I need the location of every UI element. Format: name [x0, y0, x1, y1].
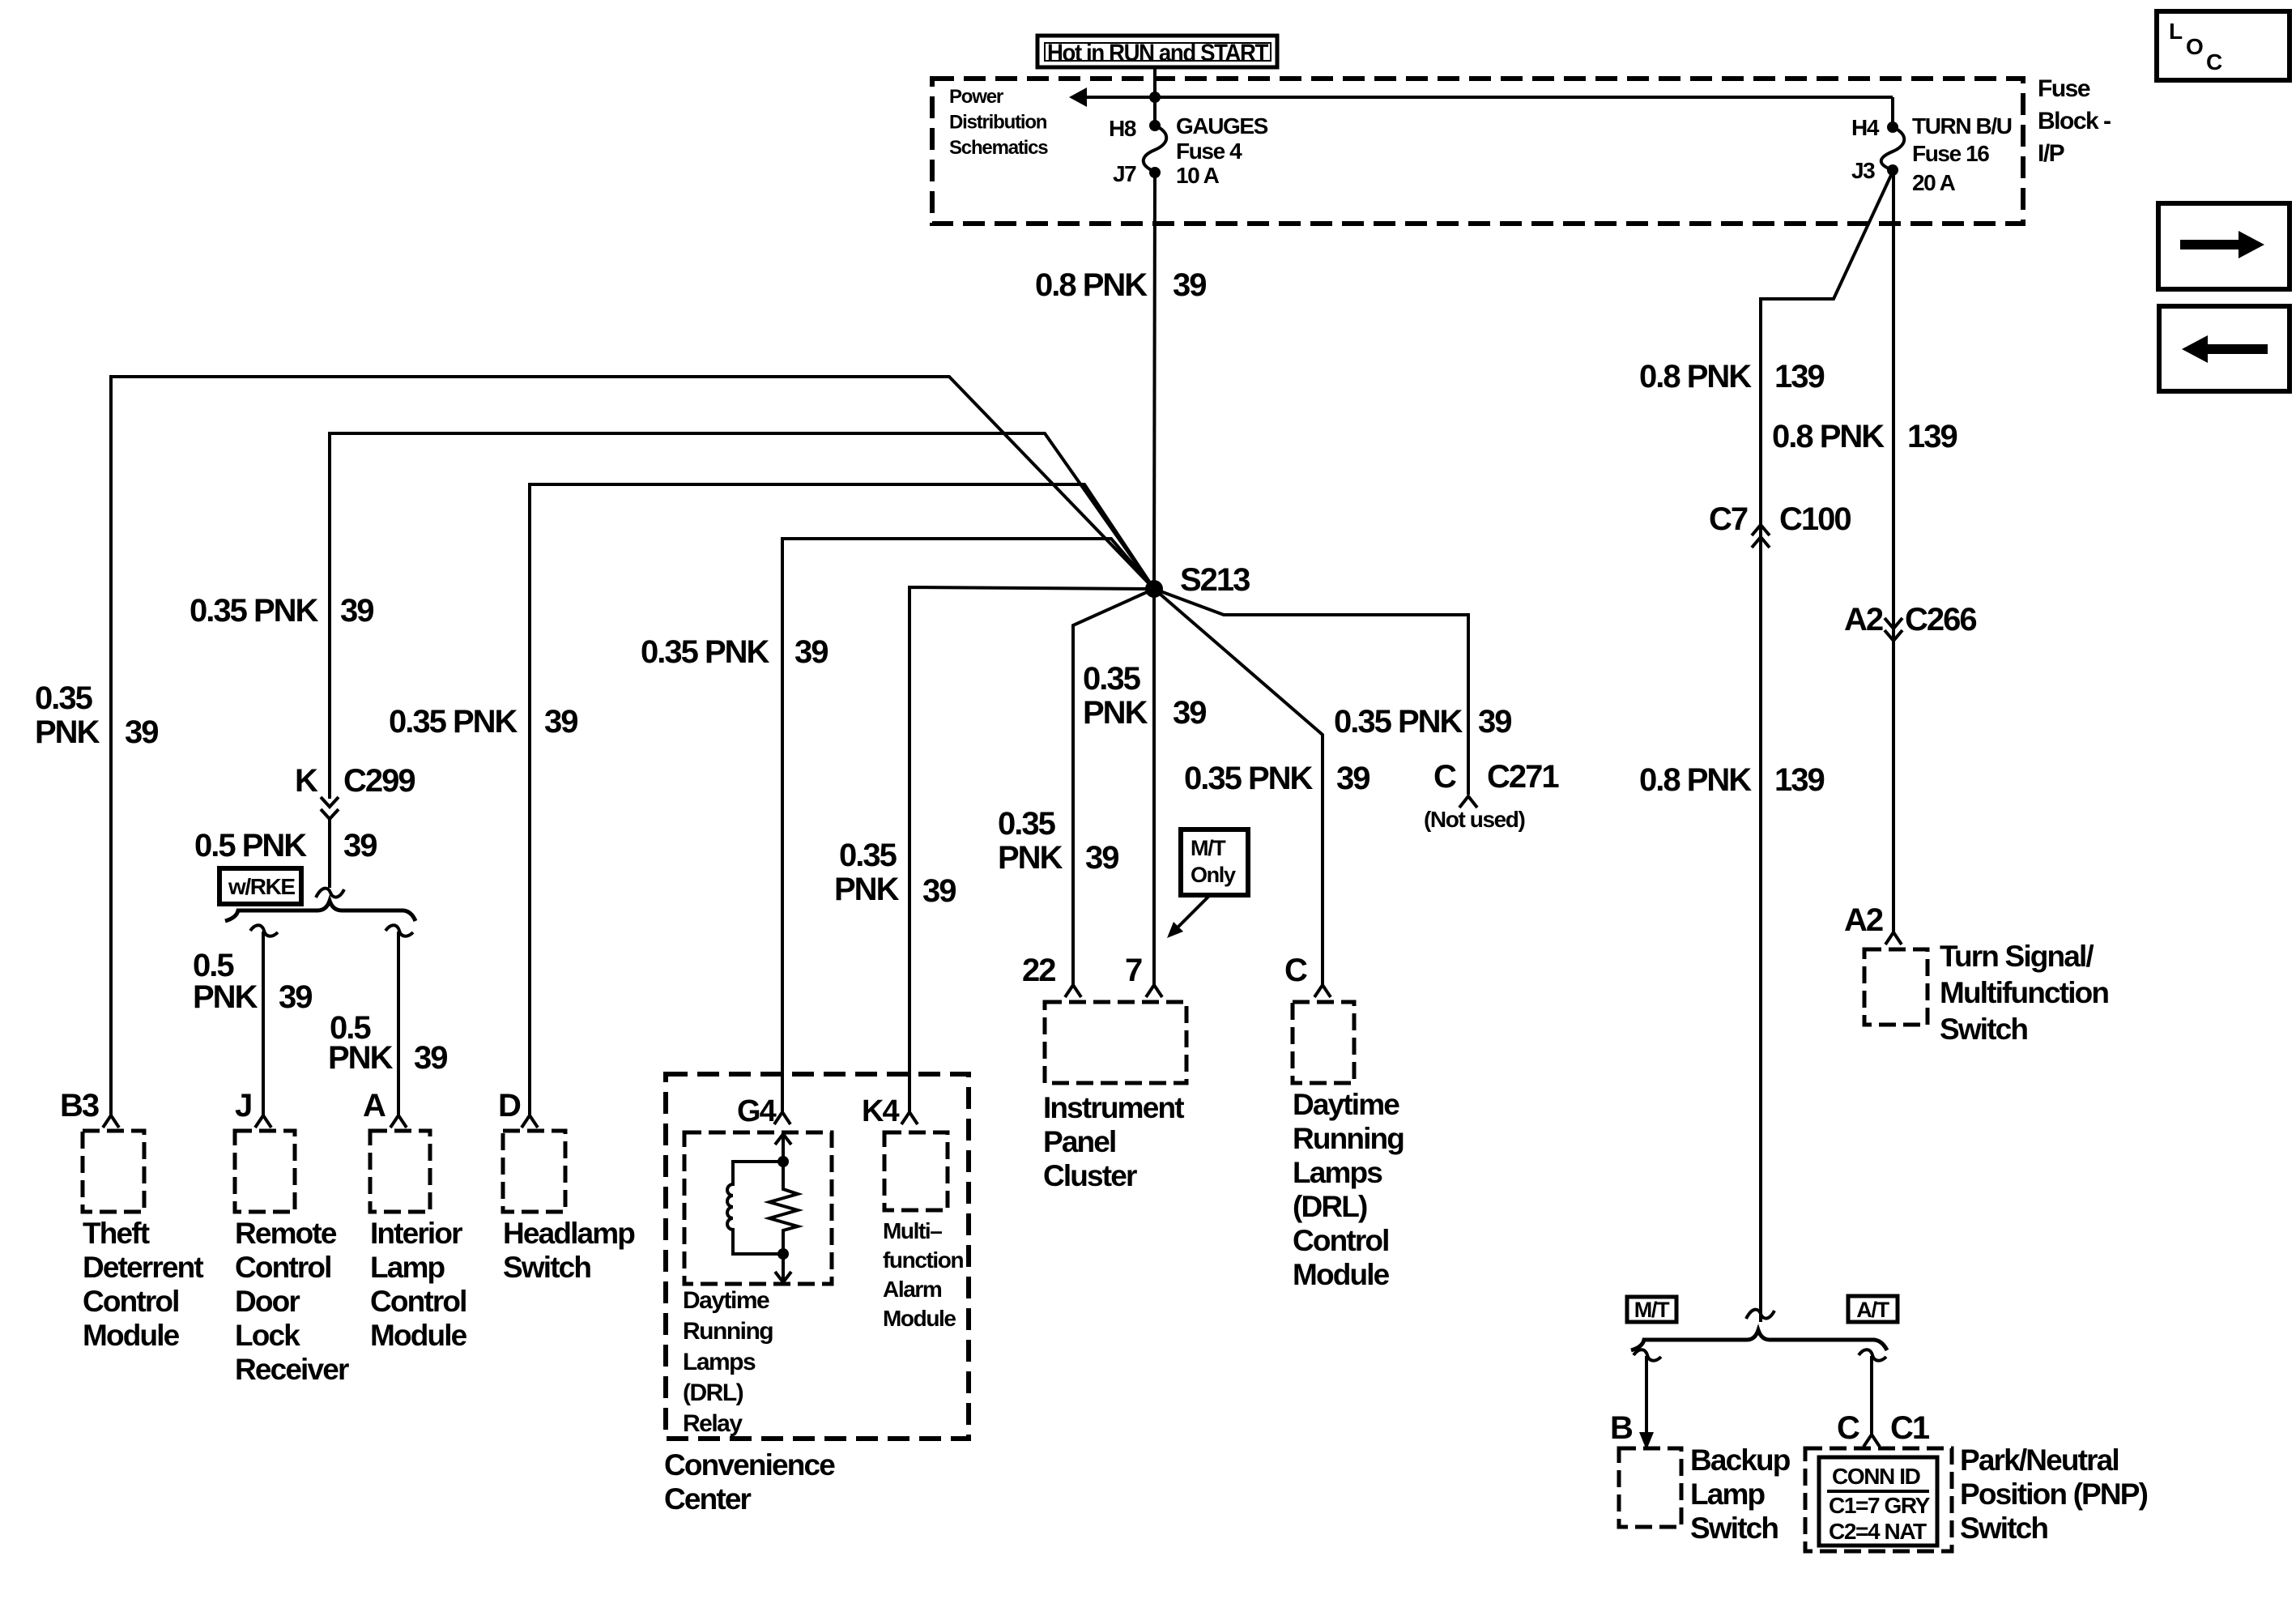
svg-text:0.35 PNK: 0.35 PNK	[389, 704, 518, 740]
connector chevron A	[390, 1115, 407, 1128]
label 0.8 PNK 139 (below C100)	[1639, 762, 1824, 798]
connector chevron C (DRL)	[1314, 985, 1331, 997]
fuse F4 GAUGES symbol	[1144, 126, 1167, 172]
module Headlamp Switch	[503, 1131, 635, 1284]
label 0.8 PNK 39	[1035, 267, 1206, 303]
wire branch D Headlamp	[530, 484, 1154, 1116]
connector chevron J	[255, 1115, 271, 1128]
svg-text:A: A	[363, 1088, 386, 1124]
connector chevron D	[522, 1115, 538, 1128]
svg-text:139: 139	[1774, 762, 1824, 798]
box A/T	[1848, 1296, 1898, 1322]
node J3	[1887, 164, 1898, 176]
relay node bottom	[777, 1248, 789, 1260]
svg-text:C1=7 GRY: C1=7 GRY	[1829, 1493, 1931, 1518]
wire from Hot box to fuse H8	[1153, 68, 1157, 126]
svg-text:C: C	[2206, 49, 2222, 75]
connector C266 chevrons	[1885, 618, 1902, 641]
svg-text:A2: A2	[1844, 602, 1883, 637]
label 0.5 PNK 39	[194, 828, 377, 863]
svg-text:C266: C266	[1905, 602, 1976, 637]
svg-text:39: 39	[414, 1040, 447, 1076]
wire branch C DRL module	[1154, 589, 1323, 985]
svg-text:0.35PNK: 0.35PNK	[35, 680, 100, 750]
svg-text:0.35 PNK: 0.35 PNK	[1184, 761, 1314, 796]
svg-text:C1: C1	[1890, 1410, 1930, 1446]
wire down to H4	[1891, 97, 1894, 127]
label K C299	[295, 763, 415, 799]
module Daytime Running Lamps DRL Control Module	[1293, 1002, 1404, 1291]
svg-text:K: K	[295, 763, 318, 799]
svg-text:39: 39	[279, 979, 312, 1015]
svg-text:B3: B3	[60, 1088, 99, 1124]
wire main feed horizontal	[1085, 96, 1893, 99]
label 0.35 PNK 39 (22)	[998, 806, 1118, 876]
module Turn Signal Multifunction Switch	[1864, 940, 2108, 1046]
pigtail J	[250, 925, 278, 936]
wire fuse J7 down to S213	[1154, 173, 1155, 589]
connector C271 end	[1459, 796, 1477, 808]
svg-text:C2=4 NAT: C2=4 NAT	[1829, 1519, 1927, 1544]
relay bottom arrow down	[775, 1254, 791, 1282]
box M/T Only	[1181, 829, 1248, 895]
wire branch C271 not used	[1154, 589, 1468, 795]
svg-text:C: C	[1837, 1410, 1859, 1446]
connector chevron C1	[1864, 1435, 1880, 1447]
arrow from M/T Only to wire 7	[1167, 896, 1209, 938]
svg-text:0.8 PNK: 0.8 PNK	[1639, 762, 1752, 798]
wire branch B3 Theft	[111, 377, 1154, 1116]
wire to PNP switch	[1870, 1356, 1873, 1434]
svg-text:H8: H8	[1109, 116, 1136, 141]
module Backup Lamp Switch	[1619, 1443, 1791, 1545]
connector C299 chevrons	[321, 797, 339, 819]
label 0.35 PNK 39 (G4)	[641, 634, 828, 670]
svg-text:39: 39	[1173, 695, 1206, 731]
left-arrow legend box	[2159, 306, 2290, 391]
module Instrument Panel Cluster	[1043, 1002, 1186, 1192]
node H4	[1887, 122, 1898, 133]
svg-text:M/T: M/T	[1191, 836, 1226, 860]
wire branch K C299	[330, 433, 1154, 799]
svg-text:B: B	[1610, 1410, 1633, 1446]
svg-text:0.35 PNK: 0.35 PNK	[1334, 704, 1463, 740]
svg-text:39: 39	[1336, 761, 1370, 796]
module Remote Control Door Lock Receiver	[235, 1131, 349, 1386]
svg-text:C: C	[1284, 953, 1307, 988]
wire to backup lamp switch with arrow	[1639, 1356, 1654, 1450]
svg-text:22: 22	[1022, 953, 1055, 988]
svg-text:C100: C100	[1779, 501, 1851, 537]
relay resistor	[769, 1162, 798, 1254]
wire to A	[397, 932, 400, 1116]
svg-text:L: L	[2169, 19, 2183, 44]
box M/T	[1627, 1297, 1676, 1322]
svg-text:H4: H4	[1851, 115, 1880, 140]
svg-text:A2: A2	[1844, 902, 1883, 938]
svg-text:39: 39	[1173, 267, 1206, 303]
brace splitting to J and A	[225, 901, 415, 921]
fuse F16 TURN B/U symbol	[1881, 127, 1905, 170]
relay top arrow up	[775, 1134, 791, 1162]
svg-text:w/RKE: w/RKE	[228, 874, 295, 899]
svg-text:39: 39	[544, 704, 577, 740]
svg-text:0.35PNK: 0.35PNK	[834, 838, 900, 907]
label 0.35 PNK 39 (7)	[1083, 661, 1206, 731]
pigtail A/T	[1859, 1350, 1886, 1360]
connector chevron A2 turn signal	[1885, 932, 1902, 944]
svg-text:(Not used): (Not used)	[1424, 807, 1525, 832]
svg-text:39: 39	[1085, 840, 1118, 876]
svg-text:0.5 PNK: 0.5 PNK	[194, 828, 307, 863]
module Interior Lamp Control Module	[370, 1131, 467, 1352]
svg-text:O: O	[2186, 34, 2203, 59]
svg-text:39: 39	[922, 873, 956, 909]
svg-text:39: 39	[794, 634, 828, 670]
svg-text:0.35 PNK: 0.35 PNK	[190, 593, 319, 629]
node S213 splice	[1145, 580, 1163, 598]
DRL relay dashed box	[684, 1132, 832, 1284]
svg-text:0.35PNK: 0.35PNK	[1083, 661, 1148, 731]
connector C100 chevrons	[1752, 525, 1770, 548]
wire J3 down to turn signal switch	[1892, 170, 1895, 932]
connector chevron 7	[1146, 985, 1162, 997]
svg-text:7: 7	[1125, 953, 1142, 988]
svg-text:0.35 PNK: 0.35 PNK	[641, 634, 770, 670]
relay coil branch	[727, 1162, 783, 1254]
svg-text:39: 39	[340, 593, 373, 629]
svg-text:C7: C7	[1709, 501, 1748, 537]
wire below C299	[328, 819, 331, 888]
svg-text:M/T: M/T	[1634, 1298, 1670, 1322]
svg-text:C299: C299	[343, 763, 415, 799]
label 0.35 PNK 39 (C271)	[1334, 704, 1511, 740]
connector chevron K4	[901, 1112, 918, 1124]
label C C271	[1433, 759, 1559, 795]
svg-text:J3: J3	[1851, 158, 1875, 183]
label 0.5 PNK 39 (A)	[328, 1010, 447, 1076]
pigtail A	[386, 925, 413, 936]
svg-text:K4: K4	[862, 1094, 900, 1128]
Multifunction Alarm Module dashed box	[884, 1132, 948, 1210]
svg-text:A/T: A/T	[1856, 1298, 1889, 1322]
label 0.35 PNK 39 (Theft)	[35, 680, 158, 750]
brace splitting M/T A/T	[1631, 1330, 1887, 1350]
svg-text:139: 139	[1774, 359, 1824, 394]
label A2 C266	[1844, 602, 1976, 637]
label 0.5 PNK 39 (J)	[193, 948, 312, 1015]
node H8	[1149, 120, 1161, 131]
svg-text:G4: G4	[737, 1094, 777, 1128]
svg-text:39: 39	[125, 714, 158, 750]
svg-text:Only: Only	[1191, 863, 1236, 887]
right-arrow legend box	[2158, 203, 2290, 289]
wire branch 22 cluster	[1073, 589, 1154, 985]
break squiggle at w/RKE split	[316, 889, 344, 898]
svg-text:S213: S213	[1180, 562, 1250, 598]
module PNP switch dashed box	[1805, 1448, 1952, 1551]
connector chevron B3	[103, 1115, 119, 1128]
svg-text:C271: C271	[1487, 759, 1559, 795]
svg-text:139: 139	[1907, 419, 1957, 454]
CONN ID table	[1819, 1457, 1937, 1546]
svg-text:39: 39	[343, 828, 377, 863]
pigtail M/T	[1634, 1350, 1661, 1360]
connector chevron 22	[1065, 985, 1081, 997]
break squiggle above M/T brace	[1746, 1310, 1774, 1319]
svg-text:CONN ID: CONN ID	[1832, 1464, 1921, 1489]
fuse block dashed box	[932, 79, 2023, 224]
label 0.35 PNK 39 (K4)	[834, 838, 956, 909]
node J7	[1149, 167, 1161, 178]
label 0.8 PNK 139 (turn wire)	[1772, 419, 1957, 454]
Convenience Center dashed box	[666, 1074, 969, 1439]
box "Hot in RUN and START"	[1037, 36, 1277, 67]
label 0.35 PNK 39 (C DRL)	[1184, 761, 1370, 796]
label 0.8 PNK 139 (C100 above)	[1639, 359, 1824, 394]
svg-text:0.8 PNK: 0.8 PNK	[1639, 359, 1752, 394]
box w/RKE	[219, 868, 301, 904]
svg-text:39: 39	[1478, 704, 1511, 740]
svg-text:0.35PNK: 0.35PNK	[998, 806, 1063, 876]
svg-text:J7: J7	[1113, 161, 1136, 186]
label 0.35 PNK 39 (D)	[389, 704, 577, 740]
wire branch 7 cluster	[1152, 589, 1156, 985]
wire to J	[262, 932, 265, 1116]
svg-text:0.8 PNK: 0.8 PNK	[1035, 267, 1148, 303]
label C7 C100	[1709, 501, 1851, 537]
connector chevron G4	[774, 1112, 790, 1124]
wire J3 diagonal to C100 branch	[1761, 172, 1893, 1322]
LOC legend box	[2157, 11, 2290, 80]
svg-text:0.8 PNK: 0.8 PNK	[1772, 419, 1885, 454]
wire branch K4 alarm	[909, 587, 1154, 1113]
label C C1	[1837, 1410, 1930, 1446]
node junction at fuse 4 tap	[1149, 92, 1161, 103]
label 0.35 PNK 39 (C299)	[190, 593, 373, 629]
svg-text:InteriorLampControlModule: InteriorLampControlModule	[370, 1217, 467, 1352]
svg-text:D: D	[498, 1088, 521, 1124]
relay node top	[777, 1156, 789, 1167]
svg-text:J: J	[235, 1088, 251, 1124]
svg-text:C: C	[1433, 759, 1456, 795]
arrowhead to Power Distribution	[1069, 87, 1087, 107]
wire branch G4 relay	[782, 539, 1154, 1113]
module Theft Deterrent Control Module	[83, 1131, 203, 1352]
svg-text:Hot in RUN and START: Hot in RUN and START	[1047, 40, 1268, 66]
